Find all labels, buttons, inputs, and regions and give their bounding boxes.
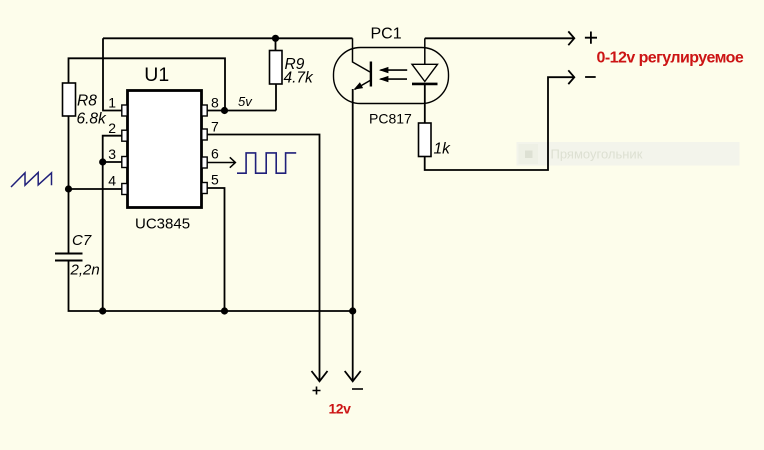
- terminal arrow 12v minus: [345, 371, 361, 381]
- junction node rail at pin 5 drop: [221, 307, 228, 314]
- pin 1: [122, 105, 127, 116]
- svg-text:5v: 5v: [238, 94, 253, 109]
- resistor R8: [63, 83, 76, 116]
- LED triangle: [412, 64, 438, 81]
- svg-text:4.7k: 4.7k: [284, 70, 315, 87]
- svg-text:UC3845: UC3845: [135, 216, 190, 233]
- pin 8: [202, 105, 207, 116]
- label + (output): [585, 32, 597, 44]
- wire: top rail from pin1 riser to optocoupler collector: [103, 37, 353, 39]
- wire: pin 3 lead: [103, 161, 123, 163]
- wire: rail down to 12v minus terminal: [352, 311, 354, 381]
- terminal arrow output plus: [568, 31, 574, 45]
- svg-text:6.8k: 6.8k: [77, 111, 108, 128]
- terminal arrow 12v plus: [312, 371, 328, 381]
- wire: anode to output plus arrow: [425, 37, 575, 39]
- watermark box: [517, 142, 740, 166]
- wire: pin 5 lead down to rail: [207, 188, 225, 311]
- pin 3: [122, 157, 127, 168]
- pin 6: [202, 157, 207, 168]
- phototransistor base bar: [370, 62, 372, 87]
- svg-text:4: 4: [108, 173, 116, 189]
- svg-text:3: 3: [108, 146, 116, 162]
- pin 6 output arrow: [207, 157, 235, 167]
- resistor R9: [270, 51, 283, 85]
- junction node rail at ground line: [99, 307, 106, 314]
- wire: R9 top riser: [275, 37, 277, 50]
- pin 4: [122, 184, 127, 195]
- svg-text:1: 1: [108, 95, 116, 111]
- svg-text:PC1: PC1: [371, 26, 402, 43]
- pin 2: [122, 130, 127, 141]
- wire: LED cathode down to 1k: [424, 84, 426, 123]
- wire: R8 top over to 5v node: [69, 58, 226, 110]
- terminal arrow output minus: [568, 70, 574, 84]
- emitter drop wire to rail: [352, 89, 354, 311]
- label - (12v): [352, 388, 363, 390]
- svg-text:12v: 12v: [329, 401, 352, 417]
- optocoupler U2 PC817 body: [334, 48, 449, 104]
- wire: R9 bottom riser: [275, 84, 277, 111]
- svg-text:8: 8: [211, 95, 219, 111]
- label - (output): [585, 76, 596, 78]
- label + (12v): [313, 387, 321, 395]
- svg-text:6: 6: [211, 146, 219, 162]
- svg-text:R8: R8: [77, 93, 97, 110]
- resistor R 1k: [419, 123, 432, 157]
- capacitor C7: [55, 254, 83, 261]
- svg-text:2: 2: [108, 120, 116, 136]
- wire: R8 bottom down to C7: [68, 116, 70, 253]
- junction node pin 4 / R8: [65, 185, 72, 192]
- sawtooth symbol: [11, 173, 52, 188]
- pin 5: [202, 183, 207, 194]
- LED cathode bar: [412, 83, 438, 86]
- svg-text:U1: U1: [144, 64, 169, 86]
- wire: pin 7 lead down to 12v plus terminal: [207, 135, 320, 382]
- svg-text:1k: 1k: [434, 141, 452, 158]
- phototransistor emitter with arrow: [355, 80, 371, 90]
- svg-text:7: 7: [211, 119, 219, 135]
- wire: 1k bottom to output minus arrow: [425, 77, 575, 170]
- junction node 5v (pin 8): [221, 107, 228, 114]
- wire: pin 1 riser and lead: [103, 38, 123, 110]
- junction node pin 3 on ground line: [99, 158, 106, 165]
- svg-text:5: 5: [211, 172, 219, 188]
- junction node top (R9 to top rail): [272, 35, 279, 42]
- svg-text:PC817: PC817: [369, 111, 412, 127]
- svg-text:0-12v регулируемое: 0-12v регулируемое: [597, 50, 744, 67]
- junction node rail at emitter drop: [349, 307, 356, 314]
- svg-text:C7: C7: [72, 232, 92, 249]
- LED anode riser: [424, 38, 426, 64]
- wire: C7 bottom to ground rail: [69, 261, 354, 312]
- light arrow upper: [381, 69, 408, 71]
- light arrow lower: [381, 78, 408, 80]
- svg-text:Прямоугольник: Прямоугольник: [551, 147, 643, 162]
- op-amp U1 (UC3845 IC body): [128, 91, 202, 208]
- phototransistor collector wire: [353, 38, 371, 72]
- wire: pin 2 down ground line: [103, 136, 123, 311]
- pin 7: [202, 129, 207, 140]
- wire: pin 4 lead to R8 node: [69, 188, 123, 190]
- wire: pin 8 to R9 bottom (5v net): [207, 110, 277, 112]
- svg-text:2,2n: 2,2n: [70, 262, 100, 279]
- square wave symbol: [237, 153, 296, 173]
